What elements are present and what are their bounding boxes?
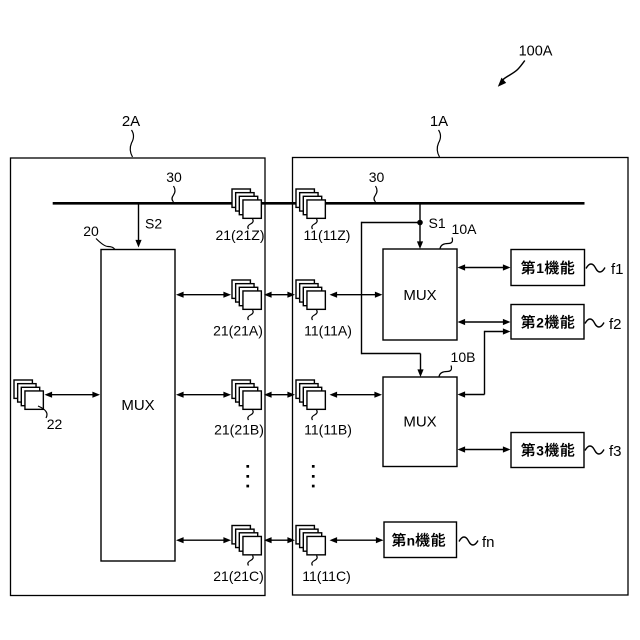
port stack 21(21Z) xyxy=(232,189,261,218)
arrow leader for 100A xyxy=(500,61,525,85)
svg-text:22: 22 xyxy=(47,416,63,432)
wire mux U10A to f1 xyxy=(460,267,509,269)
leader 11A xyxy=(312,310,317,320)
node S1 junction dot xyxy=(417,220,423,226)
port stack 21(21B) xyxy=(232,380,261,409)
svg-text:10B: 10B xyxy=(451,349,476,365)
svg-text:11(11B): 11(11B) xyxy=(304,422,352,438)
device box 2A outline xyxy=(11,158,266,596)
svg-text:MUX: MUX xyxy=(121,397,154,414)
svg-text:11(11A): 11(11A) xyxy=(304,323,352,339)
label f3 xyxy=(585,446,604,454)
svg-text:S2: S2 xyxy=(145,216,162,232)
wire mux U20 to 21B xyxy=(178,394,229,396)
svg-text:1A: 1A xyxy=(430,113,448,130)
mux U10B box xyxy=(383,377,457,467)
svg-text:S1: S1 xyxy=(429,215,446,231)
leader 11B xyxy=(312,410,317,420)
function box f2 (dai-2-kinou) xyxy=(511,305,584,340)
svg-text:30: 30 xyxy=(166,169,182,185)
ellipsis dots (left column) xyxy=(246,465,249,468)
port stack 21(21C) xyxy=(232,526,261,555)
svg-text:f2: f2 xyxy=(609,316,622,333)
port stack 11(11B) xyxy=(296,380,325,409)
svg-text:n: n xyxy=(407,534,415,549)
wire f2 to mux U10B (routed) xyxy=(485,331,506,333)
svg-text:3: 3 xyxy=(536,444,544,459)
port stack 22 xyxy=(14,380,43,409)
function box fn (dai-n-kinou) xyxy=(384,522,457,558)
svg-text:21(21C): 21(21C) xyxy=(213,568,264,584)
function box f3 (dai-3-kinou) xyxy=(511,433,584,468)
port stack 11(11Z) xyxy=(296,189,325,218)
svg-text:2A: 2A xyxy=(122,113,140,130)
wire mux U20 to 21C xyxy=(178,539,229,541)
wire S1 from bus to mux U10A xyxy=(419,204,421,243)
bus line 30 xyxy=(53,202,585,205)
device box 1A outline xyxy=(293,158,629,596)
svg-text:f1: f1 xyxy=(611,261,624,278)
port stack 11(11A) xyxy=(296,280,325,309)
svg-text:20: 20 xyxy=(83,223,99,239)
wire 22 to mux U20 xyxy=(47,394,99,396)
svg-text:f3: f3 xyxy=(609,443,622,460)
wire 21C to 11C xyxy=(266,539,293,541)
leader 22 xyxy=(38,406,47,418)
wire S2 from bus to mux U20 xyxy=(138,204,140,241)
svg-text:11(11C): 11(11C) xyxy=(302,568,351,584)
svg-text:MUX: MUX xyxy=(403,287,436,304)
port stack 11(11C) xyxy=(296,526,325,555)
wire 21B to 11B xyxy=(266,394,293,396)
leader 11C xyxy=(312,556,317,566)
leader 21Z xyxy=(248,219,253,229)
function fn text xyxy=(392,533,406,547)
function f2 text xyxy=(521,315,535,329)
svg-text:fn: fn xyxy=(482,534,495,551)
label f1 xyxy=(586,264,605,272)
function f3 text xyxy=(521,443,535,457)
leader 21A xyxy=(248,310,253,320)
svg-text:10A: 10A xyxy=(452,221,478,237)
svg-text:21(21Z): 21(21Z) xyxy=(215,227,264,243)
svg-text:100A: 100A xyxy=(519,44,553,60)
mux U20 box xyxy=(101,250,175,562)
label f2 xyxy=(585,319,604,327)
wire mux U10B to f3 xyxy=(460,449,509,451)
svg-text:MUX: MUX xyxy=(403,414,436,431)
mux U10A box xyxy=(383,249,457,340)
port stack 21(21A) xyxy=(232,280,261,309)
svg-text:2: 2 xyxy=(536,316,544,331)
wire 11C to function fn xyxy=(332,539,382,541)
wire mux U10A to f2 xyxy=(460,321,509,323)
wire 11A to mux U10A xyxy=(332,294,381,296)
svg-text:21(21B): 21(21B) xyxy=(214,422,264,438)
svg-text:11(11Z): 11(11Z) xyxy=(304,227,351,243)
svg-text:1: 1 xyxy=(536,261,544,276)
leader 11Z xyxy=(312,219,317,229)
function f1 text xyxy=(521,260,535,274)
leader 21C xyxy=(248,556,253,566)
leader 21B xyxy=(248,410,253,420)
wire mux U20 to 21A xyxy=(178,294,229,296)
function box f1 (dai-1-kinou) xyxy=(511,250,585,286)
wire 21A to 11A xyxy=(266,294,293,296)
ellipsis dots (right column) xyxy=(312,465,315,468)
wire S1 branch to mux U10B xyxy=(362,222,421,224)
svg-text:21(21A): 21(21A) xyxy=(213,323,263,339)
svg-text:30: 30 xyxy=(369,169,385,185)
wire 11B to mux U10B xyxy=(332,394,381,396)
label fn xyxy=(459,537,478,545)
